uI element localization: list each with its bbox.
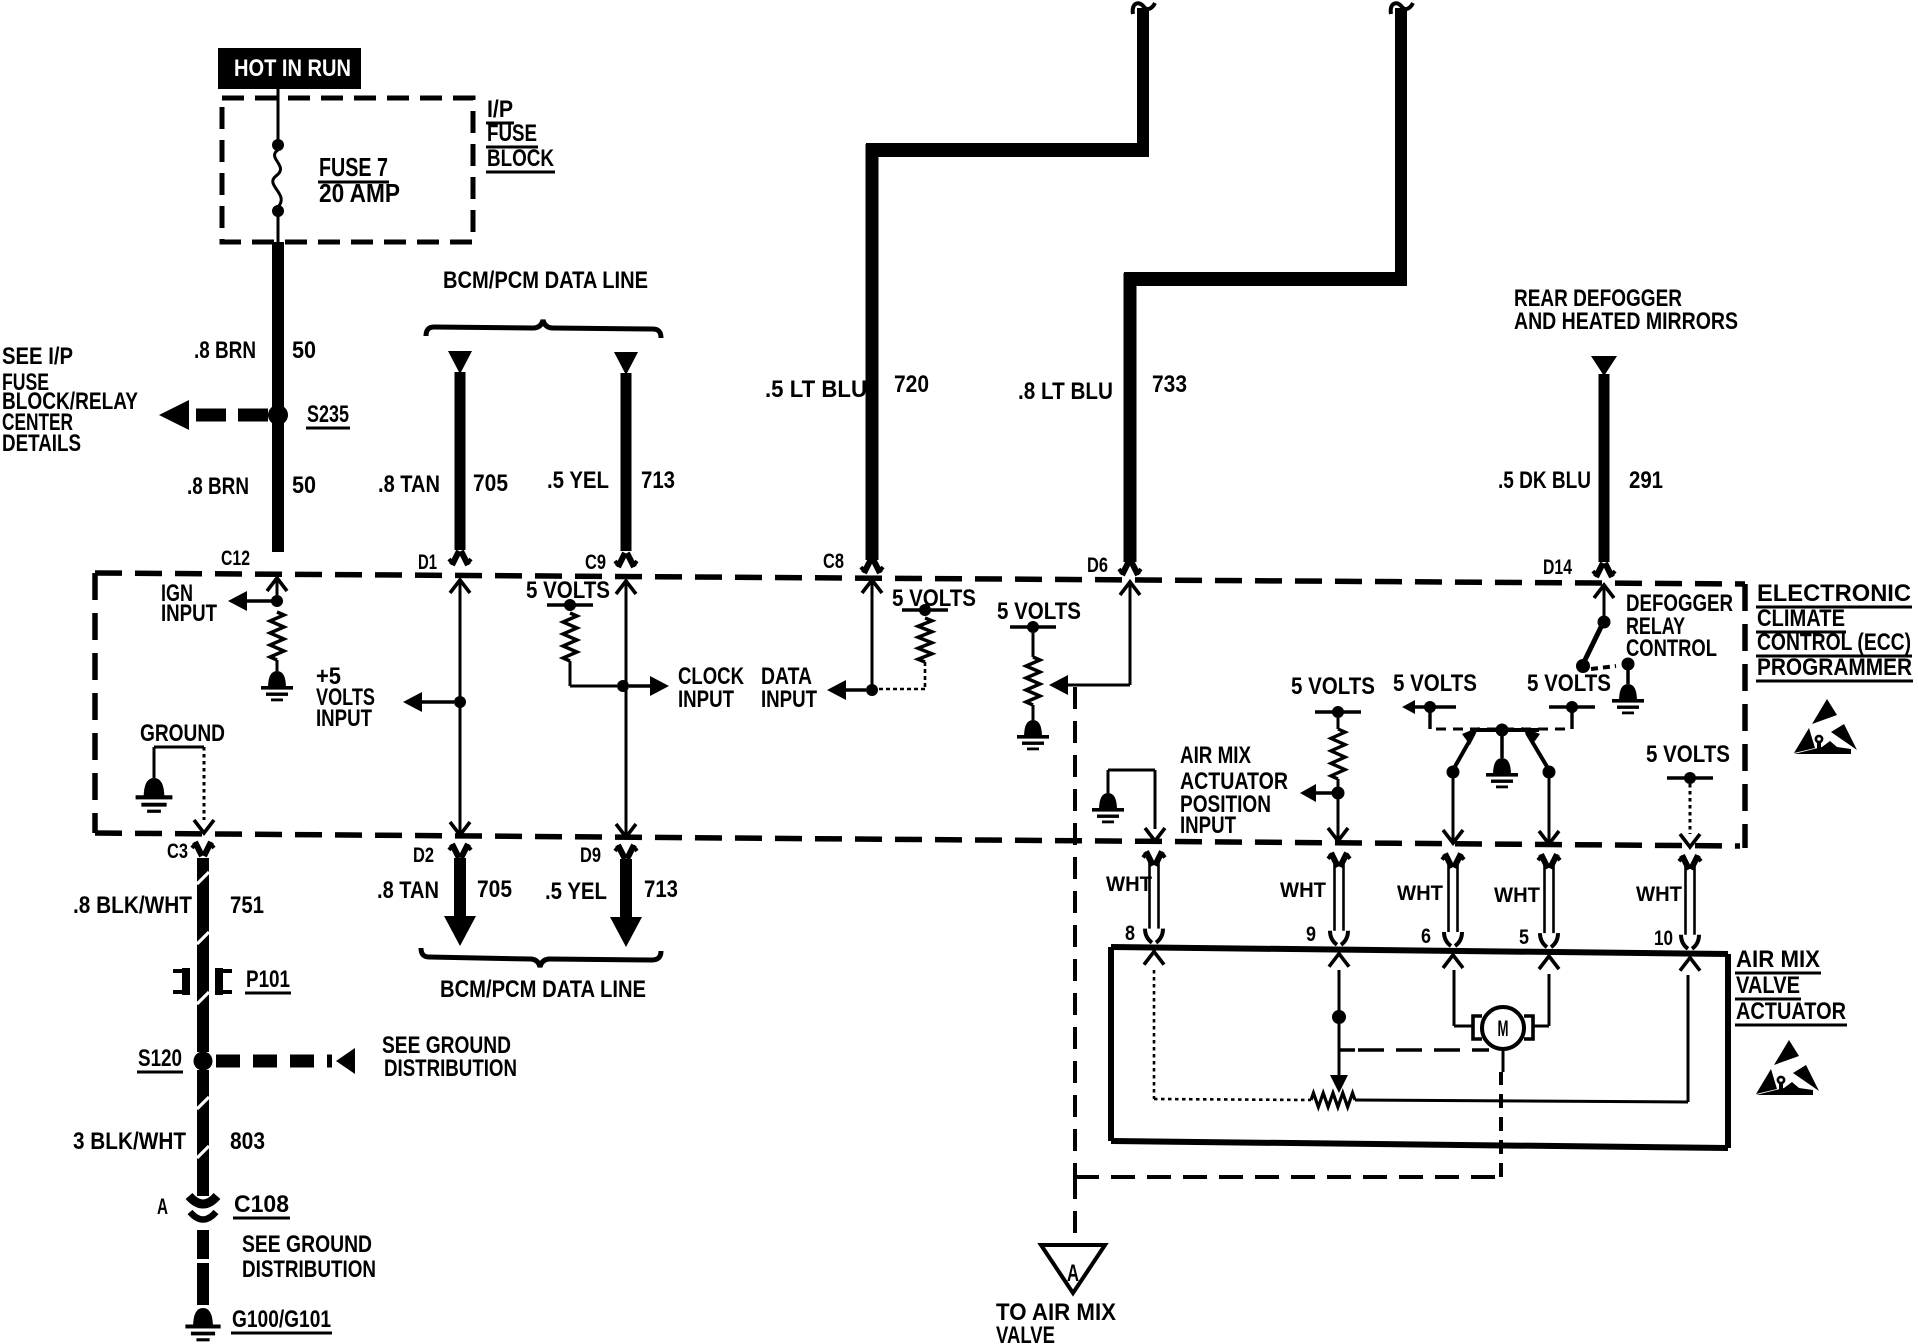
pin 8 connector WHT bbox=[1106, 852, 1165, 965]
resistor (defogger sense divider) bbox=[1026, 657, 1040, 720]
brace BCM/PCM DATA LINE (top) bbox=[426, 267, 661, 338]
AIR MIX ACTUATOR POSITION INPUT potentiometer bbox=[1291, 673, 1375, 729]
off-page triangle A TO AIR MIX VALVE bbox=[996, 1177, 1116, 1344]
label FUSE 7 / 20 AMP bbox=[318, 152, 400, 208]
ground (ECC internal) bbox=[136, 778, 173, 813]
svg-text:.8 TAN: .8 TAN bbox=[378, 471, 440, 498]
splice S235 bbox=[159, 400, 350, 430]
svg-text:CONTROL: CONTROL bbox=[1626, 635, 1717, 662]
svg-text:D14: D14 bbox=[1543, 556, 1572, 579]
node C12 bbox=[221, 547, 250, 570]
pin 5 connector WHT bbox=[1494, 854, 1560, 969]
svg-text:5 VOLTS: 5 VOLTS bbox=[1393, 670, 1477, 697]
svg-text:C3: C3 bbox=[167, 840, 188, 863]
svg-text:.5 YEL: .5 YEL bbox=[545, 878, 607, 905]
ground (relay driver) bbox=[1612, 684, 1644, 714]
position signal junction and output bbox=[1180, 742, 1348, 841]
connector D2 output wire .8 TAN 705 bbox=[377, 844, 512, 946]
DEFOGGER feedback pin D6 internals with potentiometer bbox=[997, 582, 1140, 695]
resistor (data line pullup) bbox=[878, 618, 932, 689]
svg-text:.8 TAN: .8 TAN bbox=[377, 877, 439, 904]
resistor (position divider) bbox=[1331, 729, 1345, 779]
svg-text:C9: C9 bbox=[585, 551, 606, 574]
svg-text:5 VOLTS: 5 VOLTS bbox=[1646, 741, 1730, 768]
svg-text:CLIMATE: CLIMATE bbox=[1757, 605, 1845, 632]
label AIR MIX VALVE ACTUATOR bbox=[1735, 946, 1847, 1025]
svg-text:A: A bbox=[157, 1194, 168, 1219]
ground (driver common) bbox=[1486, 758, 1518, 788]
svg-text:20 AMP: 20 AMP bbox=[319, 178, 400, 208]
wire .8 TAN 705 into D1 bbox=[378, 351, 508, 565]
node D1 bbox=[418, 551, 437, 574]
wire .8 BRN 50 from fuse to S235 to C12 bbox=[187, 242, 316, 552]
splice S120 with SEE GROUND DISTRIBUTION arrow bbox=[137, 1032, 517, 1082]
svg-text:6: 6 bbox=[1421, 925, 1431, 948]
svg-text:G100/G101: G100/G101 bbox=[232, 1306, 331, 1333]
svg-text:D1: D1 bbox=[418, 551, 437, 574]
svg-text:DETAILS: DETAILS bbox=[2, 430, 81, 457]
pin 10 connector WHT bbox=[1636, 855, 1701, 970]
actuator internal: pin 6 to motor bbox=[1454, 970, 1473, 1026]
brace BCM/PCM DATA LINE (bottom) bbox=[421, 948, 661, 1003]
svg-text:.8 LT BLU: .8 LT BLU bbox=[1018, 378, 1113, 405]
label ELECTRONIC CLIMATE CONTROL (ECC) PROGRAMMER bbox=[1756, 580, 1913, 681]
svg-text:751: 751 bbox=[230, 892, 264, 919]
DEFOGGER RELAY CONTROL switch bbox=[1576, 585, 1733, 684]
svg-text:P101: P101 bbox=[246, 966, 290, 993]
wire .5 YEL 713 into C9 bbox=[547, 352, 675, 567]
svg-text:713: 713 bbox=[641, 467, 675, 494]
wire .5 LT BLU 720 into C8 (elbow from top) bbox=[765, 3, 1155, 573]
svg-text:VALVE: VALVE bbox=[1736, 972, 1800, 999]
pin 6 connector WHT bbox=[1397, 854, 1464, 968]
+5 VOLTS INPUT pin D1 internals bbox=[316, 580, 470, 835]
svg-text:INPUT: INPUT bbox=[678, 686, 734, 713]
ground (defogger sense) bbox=[1017, 720, 1049, 750]
svg-text:.5 DK BLU: .5 DK BLU bbox=[1498, 467, 1591, 494]
ground (pin 8 return) bbox=[1092, 793, 1124, 823]
IGN INPUT pin C12 internals: arrow, junction, resistor, ground bbox=[161, 578, 287, 627]
svg-text:SEE GROUND: SEE GROUND bbox=[242, 1231, 372, 1258]
motor M bbox=[1473, 1007, 1533, 1072]
svg-text:.5 LT BLU: .5 LT BLU bbox=[765, 376, 867, 403]
svg-text:INPUT: INPUT bbox=[161, 600, 217, 627]
svg-text:C8: C8 bbox=[823, 550, 844, 573]
svg-text:AIR MIX: AIR MIX bbox=[1736, 946, 1820, 973]
svg-text:I/P: I/P bbox=[487, 96, 513, 123]
svg-text:.8 BRN: .8 BRN bbox=[187, 473, 249, 500]
svg-text:.5 YEL: .5 YEL bbox=[547, 467, 609, 494]
ECC programmer enclosure (dashed) bbox=[95, 573, 1745, 848]
svg-text:ACTUATOR: ACTUATOR bbox=[1736, 998, 1846, 1025]
rear defogger feed .5 DK BLU 291 into D14 bbox=[1498, 285, 1738, 577]
svg-text:INPUT: INPUT bbox=[1180, 812, 1236, 839]
CLOCK INPUT pin C9 internals bbox=[526, 577, 636, 837]
svg-text:INPUT: INPUT bbox=[761, 686, 817, 713]
svg-text:GROUND: GROUND bbox=[140, 720, 225, 747]
svg-text:HOT IN RUN: HOT IN RUN bbox=[234, 55, 351, 82]
svg-text:ELECTRONIC: ELECTRONIC bbox=[1757, 580, 1911, 607]
svg-text:A: A bbox=[1067, 1260, 1079, 1287]
svg-text:D6: D6 bbox=[1087, 554, 1108, 577]
wire to C3 bbox=[194, 747, 214, 833]
svg-text:AIR MIX: AIR MIX bbox=[1180, 742, 1251, 769]
svg-text:CONTROL (ECC): CONTROL (ECC) bbox=[1757, 629, 1911, 656]
svg-text:WHT: WHT bbox=[1636, 883, 1682, 906]
svg-text:803: 803 bbox=[230, 1128, 265, 1155]
ground (IGN input) bbox=[261, 671, 293, 701]
svg-text:720: 720 bbox=[894, 371, 929, 398]
actuator internal: pin 10 sense bbox=[1687, 975, 1690, 1102]
svg-text:C108: C108 bbox=[234, 1191, 289, 1218]
svg-text:713: 713 bbox=[644, 876, 678, 903]
svg-text:BCM/PCM DATA LINE: BCM/PCM DATA LINE bbox=[440, 976, 646, 1003]
svg-text:5 VOLTS: 5 VOLTS bbox=[892, 585, 976, 612]
node C8 bbox=[823, 550, 844, 573]
svg-text:50: 50 bbox=[292, 472, 316, 499]
svg-text:C12: C12 bbox=[221, 547, 250, 570]
svg-text:M: M bbox=[1498, 1016, 1509, 1041]
wire to G100/G101 with SEE GROUND DISTRIBUTION note bbox=[203, 1230, 376, 1305]
svg-text:5 VOLTS: 5 VOLTS bbox=[1291, 673, 1375, 700]
svg-text:S120: S120 bbox=[138, 1045, 182, 1072]
connector C108 (node A) bbox=[157, 1191, 290, 1220]
node C9 bbox=[585, 551, 606, 574]
dashed mechanical link to air mix valve bbox=[1075, 687, 1501, 1177]
wire track to pin 10 bbox=[1355, 1100, 1688, 1102]
svg-text:10: 10 bbox=[1654, 927, 1673, 950]
resistor (clock line pullup) bbox=[563, 613, 577, 686]
svg-text:D9: D9 bbox=[580, 844, 601, 867]
pin 9 connector WHT bbox=[1280, 853, 1350, 967]
svg-text:S235: S235 bbox=[307, 401, 349, 428]
node D6 bbox=[1087, 554, 1108, 577]
svg-text:5: 5 bbox=[1519, 926, 1529, 949]
svg-text:705: 705 bbox=[473, 470, 508, 497]
I/P fuse block enclosure bbox=[222, 98, 473, 242]
connector D9 output wire .5 YEL 713 bbox=[545, 844, 678, 947]
wire from HOT IN RUN into fuse block bbox=[277, 89, 280, 145]
actuator internal: pin8 wiper feed bbox=[1154, 970, 1311, 1100]
svg-text:INPUT: INPUT bbox=[316, 705, 372, 732]
svg-text:BLOCK: BLOCK bbox=[487, 145, 555, 172]
motor driver transistor pair bbox=[1393, 670, 1611, 844]
AIR MIX VALVE ACTUATOR enclosure bbox=[1111, 947, 1728, 1148]
svg-text:WHT: WHT bbox=[1280, 879, 1326, 902]
svg-text:AND HEATED MIRRORS: AND HEATED MIRRORS bbox=[1514, 308, 1738, 335]
connector C3 and ground wire .8 BLK/WHT 751 bbox=[73, 840, 264, 1052]
inline connector P101 bbox=[173, 966, 291, 995]
svg-text:WHT: WHT bbox=[1397, 882, 1443, 905]
svg-text:705: 705 bbox=[477, 876, 512, 903]
svg-text:50: 50 bbox=[292, 337, 316, 364]
fuse FUSE 7 20 AMP bbox=[272, 139, 284, 242]
pin 8 ground return bracket bbox=[1108, 770, 1165, 841]
svg-text:5 VOLTS: 5 VOLTS bbox=[997, 598, 1081, 625]
note: SEE I/P FUSE BLOCK/RELAY CENTER DETAILS bbox=[2, 343, 138, 457]
svg-text:PROGRAMMER: PROGRAMMER bbox=[1757, 654, 1912, 681]
svg-text:SEE I/P: SEE I/P bbox=[2, 343, 73, 370]
ESD sensitivity symbol (lower) bbox=[1756, 1040, 1819, 1095]
wire to clock junction bbox=[570, 663, 817, 713]
svg-text:DISTRIBUTION: DISTRIBUTION bbox=[384, 1055, 517, 1082]
actuator internal: pin 9 wiper bbox=[1330, 970, 1489, 1093]
label I/P FUSE BLOCK bbox=[486, 96, 555, 172]
svg-text:FUSE: FUSE bbox=[487, 120, 537, 147]
svg-text:8: 8 bbox=[1125, 922, 1135, 945]
off-page connector: HOT IN RUN feed bbox=[218, 48, 361, 89]
svg-text:WHT: WHT bbox=[1494, 884, 1540, 907]
GROUND output bracket to C3 bbox=[140, 720, 225, 778]
svg-text:.8 BRN: .8 BRN bbox=[194, 337, 256, 364]
wire .8 LT BLU 733 into D6 (elbow from top) bbox=[1018, 3, 1413, 575]
wire 3 BLK/WHT 803 bbox=[73, 1070, 265, 1196]
svg-text:733: 733 bbox=[1152, 371, 1187, 398]
svg-text:5 VOLTS: 5 VOLTS bbox=[1527, 670, 1611, 697]
pin 10 reference output bbox=[1646, 741, 1730, 847]
svg-text:DISTRIBUTION: DISTRIBUTION bbox=[242, 1256, 376, 1283]
svg-text:.8 BLK/WHT: .8 BLK/WHT bbox=[73, 892, 192, 919]
ESD sensitivity symbol (upper) bbox=[1794, 699, 1857, 754]
svg-text:BCM/PCM DATA LINE: BCM/PCM DATA LINE bbox=[443, 267, 648, 294]
svg-text:D2: D2 bbox=[413, 844, 434, 867]
svg-text:9: 9 bbox=[1306, 923, 1316, 946]
resistor (IGN input pulldown) bbox=[270, 612, 284, 671]
svg-text:3 BLK/WHT: 3 BLK/WHT bbox=[73, 1128, 186, 1155]
svg-text:VALVE: VALVE bbox=[996, 1322, 1055, 1344]
actuator internal: pin 5 to motor bbox=[1533, 974, 1549, 1026]
ground G100/G101 bbox=[185, 1306, 332, 1341]
svg-text:WHT: WHT bbox=[1106, 873, 1152, 896]
resistor (position feedback track) bbox=[1311, 1093, 1355, 1107]
node D14 bbox=[1543, 556, 1572, 579]
DATA INPUT pin C8 internals bbox=[827, 580, 976, 700]
svg-text:291: 291 bbox=[1629, 467, 1663, 494]
